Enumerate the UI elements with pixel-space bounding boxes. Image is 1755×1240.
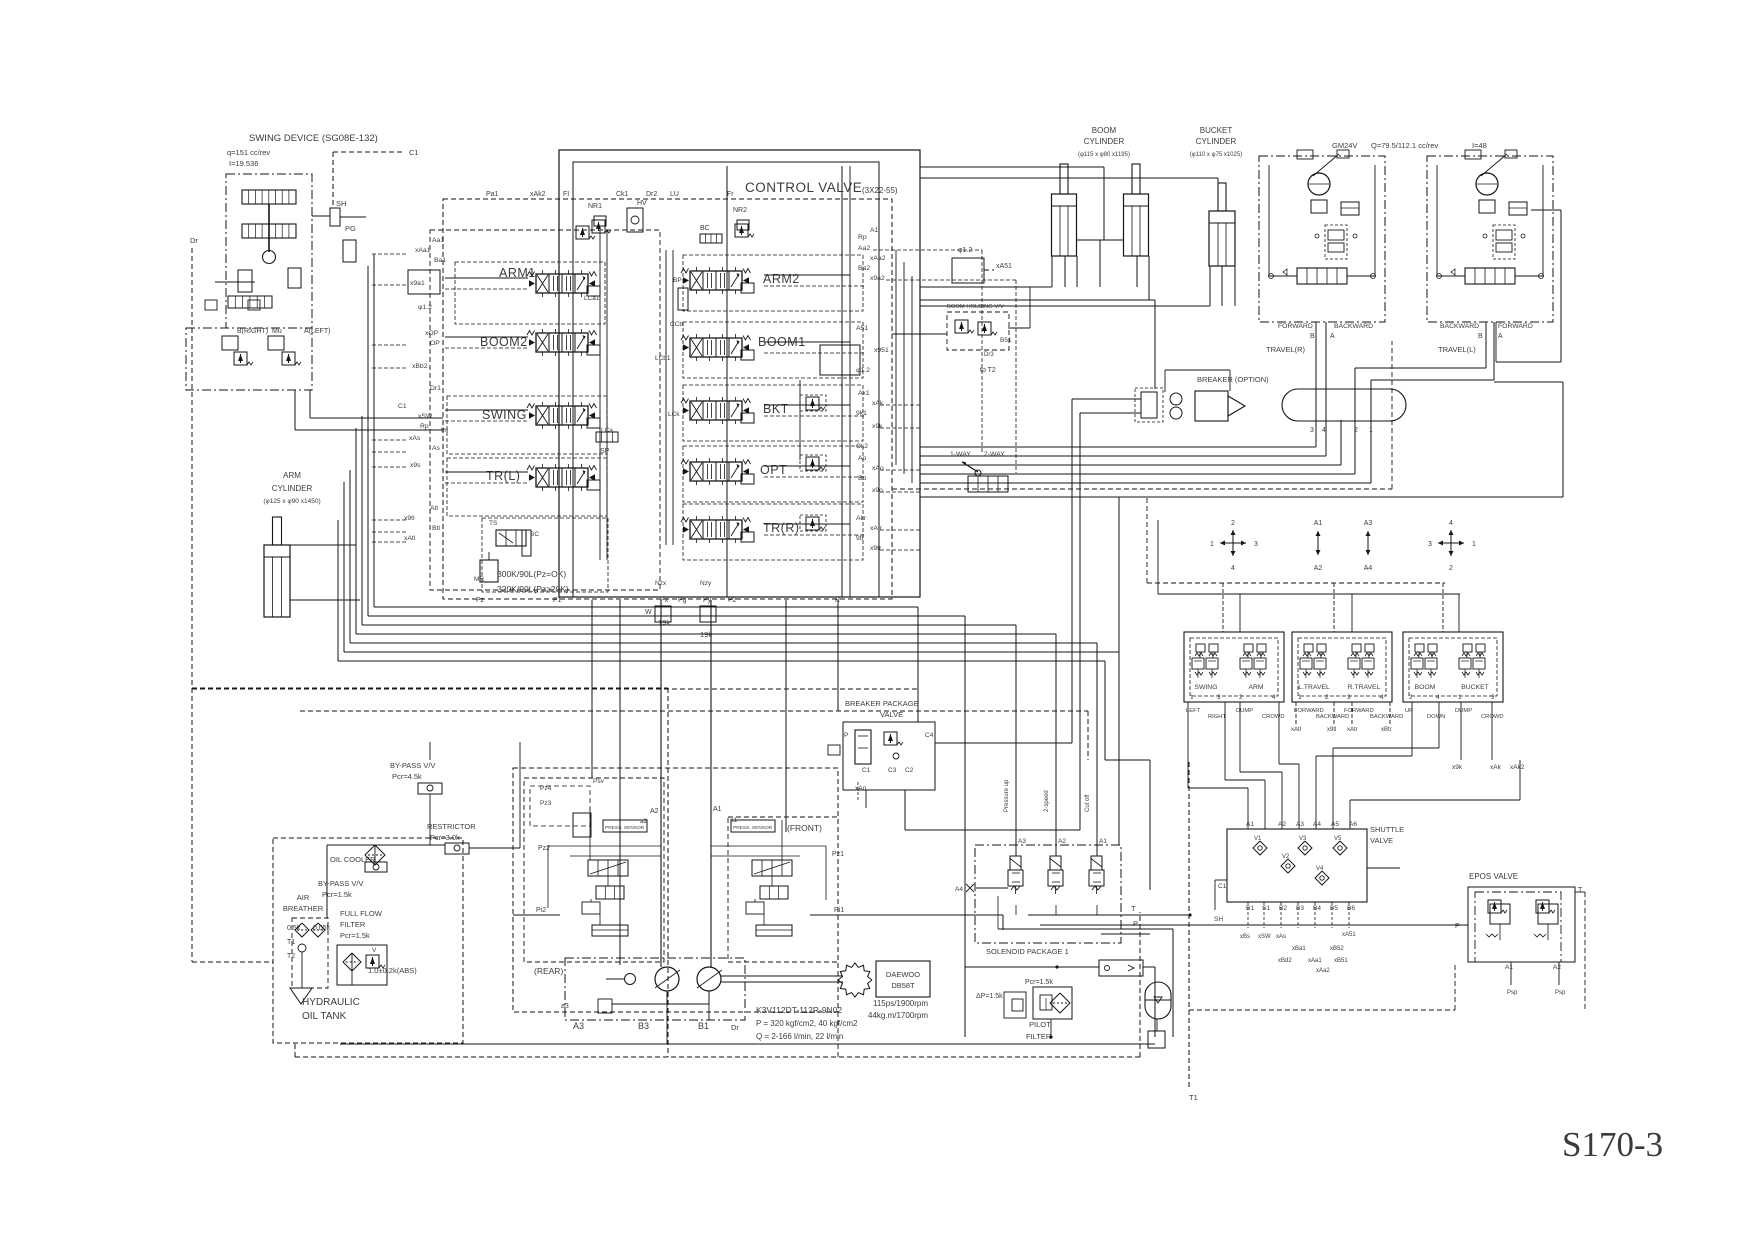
svg-text:x9tl: x9tl [404, 515, 415, 522]
svg-text:xAk2: xAk2 [1510, 764, 1525, 771]
svg-text:GM24V: GM24V [1332, 141, 1357, 150]
svg-text:xAtr: xAtr [870, 525, 883, 532]
svg-text:xAtl: xAtl [404, 535, 416, 542]
svg-text:C2: C2 [905, 767, 914, 774]
svg-text:1: 1 [1458, 694, 1462, 701]
svg-text:to T2: to T2 [980, 367, 996, 374]
svg-text:Pcr=1.5k: Pcr=1.5k [1025, 979, 1053, 986]
svg-text:A3: A3 [573, 1021, 584, 1031]
svg-text:TR(L): TR(L) [486, 469, 520, 483]
svg-text:A: A [1498, 333, 1503, 340]
svg-text:C1: C1 [398, 403, 407, 410]
svg-text:RESTRICTOR: RESTRICTOR [427, 822, 476, 831]
svg-text:3: 3 [1254, 541, 1258, 548]
svg-text:x9tr: x9tr [870, 545, 882, 552]
svg-text:BY-PASS V/V: BY-PASS V/V [318, 879, 363, 888]
svg-text:CYLINDER: CYLINDER [272, 484, 313, 493]
svg-text:T1: T1 [1189, 1093, 1198, 1102]
svg-text:xAk: xAk [1490, 764, 1502, 771]
svg-text:A2: A2 [1314, 565, 1323, 572]
svg-text:B4: B4 [1313, 905, 1321, 912]
svg-text:Pressure up: Pressure up [1004, 779, 1010, 812]
svg-text:Psv: Psv [593, 778, 605, 785]
svg-text:3: 3 [1310, 427, 1314, 434]
svg-text:LU: LU [670, 191, 679, 198]
svg-text:xBa1: xBa1 [1292, 946, 1306, 952]
svg-text:a3: a3 [561, 1003, 569, 1010]
svg-text:A3: A3 [1018, 838, 1026, 845]
svg-text:4: 4 [1436, 694, 1440, 701]
svg-text:PRESS. SENSOR: PRESS. SENSOR [733, 825, 773, 831]
svg-text:CYLINDER: CYLINDER [1084, 137, 1125, 146]
svg-text:1: 1 [1190, 694, 1194, 701]
svg-text:44kg.m/1700rpm: 44kg.m/1700rpm [868, 1011, 928, 1020]
svg-text:Atl: Atl [430, 505, 438, 512]
svg-text:V2: V2 [1282, 854, 1290, 860]
svg-text:S1: S1 [1262, 905, 1270, 912]
svg-text:TRAVEL(R): TRAVEL(R) [1266, 345, 1306, 354]
svg-text:DOWN: DOWN [1427, 714, 1445, 720]
svg-text:(φ125 x φ90 x1450): (φ125 x φ90 x1450) [263, 498, 320, 505]
svg-text:W: W [645, 609, 652, 616]
svg-text:Ao: Ao [858, 455, 867, 462]
svg-text:Ba2: Ba2 [858, 265, 870, 272]
svg-text:CROWD: CROWD [1262, 714, 1285, 720]
svg-text:300K/90L(Pz=OK): 300K/90L(Pz=OK) [497, 569, 566, 579]
svg-text:x9s: x9s [410, 462, 421, 469]
svg-text:BUCKET: BUCKET [1461, 684, 1489, 691]
svg-text:SH: SH [1214, 916, 1223, 923]
svg-text:2-WAY: 2-WAY [984, 451, 1005, 458]
svg-text:Nzx: Nzx [655, 580, 667, 587]
svg-text:VALVE: VALVE [880, 710, 903, 719]
svg-text:A1: A1 [713, 806, 722, 813]
svg-text:2: 2 [1231, 520, 1235, 527]
svg-text:C3: C3 [888, 767, 897, 774]
svg-text:xA51: xA51 [1342, 932, 1356, 938]
svg-text:LCa: LCa [601, 427, 613, 434]
svg-text:xOP: xOP [425, 330, 439, 337]
svg-text:Pz1: Pz1 [832, 851, 844, 858]
svg-text:A(LEFT): A(LEFT) [304, 328, 330, 335]
svg-text:115ps/1900rpm: 115ps/1900rpm [873, 999, 928, 1008]
svg-text:xBtr: xBtr [1381, 727, 1392, 733]
svg-text:xBs: xBs [1240, 934, 1250, 940]
svg-text:VALVE: VALVE [1370, 836, 1393, 845]
svg-text:TS: TS [489, 520, 498, 527]
svg-text:A4: A4 [955, 886, 963, 893]
svg-text:FILTER: FILTER [340, 920, 366, 929]
svg-text:A4: A4 [1313, 821, 1321, 828]
svg-text:B51: B51 [1000, 337, 1012, 344]
svg-text:PG: PG [345, 224, 356, 233]
svg-text:Pcr=4.5k: Pcr=4.5k [392, 772, 422, 781]
svg-text:(φ110 x φ75 x1025): (φ110 x φ75 x1025) [1190, 152, 1242, 158]
svg-text:4: 4 [1380, 694, 1384, 701]
svg-text:φ1.2: φ1.2 [418, 304, 432, 311]
svg-text:ARM: ARM [1248, 684, 1263, 691]
svg-text:P1: P1 [553, 597, 562, 604]
svg-text:BP: BP [673, 277, 682, 284]
svg-text:x9k: x9k [1452, 764, 1463, 771]
svg-text:CYLINDER: CYLINDER [1196, 137, 1237, 146]
svg-text:A3: A3 [1364, 520, 1373, 527]
svg-text:V4: V4 [1316, 866, 1324, 872]
svg-text:(3X22-55): (3X22-55) [862, 186, 898, 195]
svg-text:φ1.2: φ1.2 [958, 247, 972, 254]
svg-text:NR2: NR2 [733, 207, 747, 214]
svg-text:ΔP=1.5k: ΔP=1.5k [976, 993, 1003, 1000]
svg-text:Btl: Btl [432, 525, 440, 532]
svg-text:x9k: x9k [872, 423, 883, 430]
svg-text:A2: A2 [1058, 838, 1066, 845]
svg-text:Pg: Pg [678, 597, 687, 604]
svg-text:A5: A5 [1331, 821, 1339, 828]
svg-text:Psp: Psp [1507, 990, 1518, 996]
svg-text:B2: B2 [1279, 905, 1287, 912]
svg-text:T: T [1131, 904, 1136, 913]
svg-text:SH: SH [336, 199, 346, 208]
svg-text:FULL FLOW: FULL FLOW [340, 909, 383, 918]
svg-text:Rp: Rp [420, 423, 429, 430]
svg-text:a2: a2 [640, 818, 648, 825]
svg-text:P2: P2 [728, 597, 737, 604]
svg-text:C1: C1 [409, 148, 419, 157]
svg-text:xSW: xSW [1258, 934, 1271, 940]
svg-text:V3: V3 [1299, 836, 1307, 842]
svg-text:4: 4 [1322, 427, 1326, 434]
svg-text:xAa1: xAa1 [415, 247, 431, 254]
svg-text:T: T [1578, 887, 1583, 894]
svg-text:S170-3: S170-3 [1562, 1125, 1663, 1164]
svg-text:Dr2: Dr2 [646, 191, 657, 198]
svg-text:P: P [1455, 923, 1460, 930]
svg-text:A51: A51 [856, 325, 868, 332]
svg-text:BOOM: BOOM [1092, 126, 1117, 135]
svg-text:1: 1 [1210, 541, 1214, 548]
svg-text:B1: B1 [1246, 905, 1254, 912]
svg-text:Rp: Rp [858, 234, 867, 241]
svg-text:xAa2: xAa2 [870, 255, 886, 262]
svg-text:BREATHER: BREATHER [283, 904, 324, 913]
svg-text:Ck1: Ck1 [616, 191, 629, 198]
svg-text:A1: A1 [1246, 821, 1254, 828]
svg-text:BACKWARD: BACKWARD [1334, 323, 1373, 330]
svg-text:SOLENOID PACKAGE 1: SOLENOID PACKAGE 1 [986, 947, 1069, 956]
svg-text:xAk2: xAk2 [530, 191, 546, 198]
svg-text:ARM2: ARM2 [763, 272, 800, 286]
svg-text:Dr: Dr [731, 1023, 739, 1032]
svg-text:1: 1 [1472, 541, 1476, 548]
svg-text:3: 3 [1217, 694, 1221, 701]
svg-text:2: 2 [1325, 694, 1329, 701]
svg-text:Psp: Psp [1555, 990, 1566, 996]
svg-text:DB58T: DB58T [891, 981, 915, 990]
svg-text:Dr1: Dr1 [430, 385, 441, 392]
svg-text:BKT: BKT [763, 402, 789, 416]
svg-text:(FRONT): (FRONT) [787, 823, 822, 833]
svg-text:SWING: SWING [1194, 684, 1217, 691]
svg-text:4: 4 [1272, 694, 1276, 701]
svg-text:FILTER: FILTER [1026, 1032, 1052, 1041]
svg-text:CONTROL VALVE: CONTROL VALVE [745, 180, 862, 195]
svg-text:Mu: Mu [272, 328, 282, 335]
svg-text:RIGHT: RIGHT [1208, 714, 1226, 720]
svg-text:Bo: Bo [858, 475, 867, 482]
svg-text:B: B [1478, 333, 1483, 340]
svg-text:Pi1: Pi1 [834, 907, 844, 914]
svg-text:Ba1: Ba1 [434, 257, 446, 264]
svg-text:2: 2 [1239, 694, 1243, 701]
svg-text:CCb: CCb [670, 321, 683, 328]
svg-text:T1: T1 [287, 939, 295, 946]
svg-text:Q=79.5/112.1 cc/rev: Q=79.5/112.1 cc/rev [1371, 141, 1438, 150]
svg-text:V1: V1 [1254, 836, 1262, 842]
svg-text:BOOM HOLDING V/V: BOOM HOLDING V/V [947, 304, 1004, 310]
svg-text:Pa1: Pa1 [486, 191, 499, 198]
svg-text:PILOT: PILOT [1029, 1020, 1051, 1029]
svg-text:Akr: Akr [856, 515, 867, 522]
svg-text:Q = 2-166 l/min, 22 l/min: Q = 2-166 l/min, 22 l/min [756, 1032, 843, 1041]
svg-text:xBd2: xBd2 [1278, 958, 1292, 964]
svg-text:Nzy: Nzy [700, 580, 712, 587]
svg-text:C1: C1 [862, 767, 871, 774]
svg-text:2: 2 [1449, 565, 1453, 572]
svg-text:FI: FI [563, 191, 569, 198]
svg-text:OIL TANK: OIL TANK [302, 1011, 347, 1022]
svg-text:xA51: xA51 [996, 263, 1012, 270]
svg-text:A1: A1 [1505, 964, 1513, 971]
svg-text:BREAKER PACKAGE: BREAKER PACKAGE [845, 699, 919, 708]
svg-text:DUMP: DUMP [1236, 708, 1253, 714]
svg-text:C1: C1 [1218, 883, 1227, 890]
svg-text:Fr: Fr [727, 191, 734, 198]
svg-text:DAEWOO: DAEWOO [886, 970, 920, 979]
svg-text:A3: A3 [1296, 821, 1304, 828]
svg-text:As: As [432, 445, 441, 452]
svg-text:C4: C4 [925, 732, 934, 739]
svg-text:4: 4 [1231, 565, 1235, 572]
svg-text:B3: B3 [638, 1021, 649, 1031]
svg-text:PRESS. SENSOR: PRESS. SENSOR [605, 825, 645, 831]
svg-text:NR1: NR1 [588, 203, 602, 210]
svg-text:B6: B6 [1347, 905, 1355, 912]
svg-text:xAa1: xAa1 [1308, 958, 1322, 964]
svg-text:BOOM: BOOM [1415, 684, 1436, 691]
svg-text:OP: OP [430, 340, 440, 347]
svg-text:SHUTTLE: SHUTTLE [1370, 825, 1404, 834]
svg-text:B5: B5 [1330, 905, 1338, 912]
svg-text:EPOS VALVE: EPOS VALVE [1469, 872, 1518, 881]
svg-text:L.TRAVEL: L.TRAVEL [1298, 684, 1330, 691]
svg-text:Ck2: Ck2 [856, 443, 868, 450]
svg-text:q=151 cc/rev: q=151 cc/rev [227, 148, 270, 157]
svg-text:V: V [372, 947, 377, 954]
svg-text:1-WAY: 1-WAY [950, 451, 971, 458]
svg-text:A1: A1 [1314, 520, 1323, 527]
svg-text:Aa1: Aa1 [432, 237, 444, 244]
svg-text:3: 3 [1428, 541, 1432, 548]
svg-text:3: 3 [1347, 694, 1351, 701]
svg-text:4: 4 [1449, 520, 1453, 527]
svg-text:A2: A2 [650, 808, 659, 815]
svg-text:BY-PASS V/V: BY-PASS V/V [390, 761, 435, 770]
svg-text:TRAVEL(L): TRAVEL(L) [1438, 345, 1476, 354]
svg-text:P: P [844, 732, 848, 739]
svg-text:(REAR): (REAR) [534, 966, 563, 976]
svg-text:xAo: xAo [872, 465, 884, 472]
svg-text:LCa1: LCa1 [584, 295, 600, 302]
svg-text:320K/90L(Pz≥20K): 320K/90L(Pz≥20K) [497, 584, 569, 594]
svg-text:Ak1: Ak1 [858, 390, 870, 397]
svg-text:19k: 19k [658, 618, 670, 627]
svg-text:xAo: xAo [855, 785, 867, 792]
svg-text:x951: x951 [874, 347, 889, 354]
svg-text:x9o: x9o [872, 487, 883, 494]
svg-text:xAa2: xAa2 [1316, 968, 1330, 974]
svg-text:BACKWARD: BACKWARD [1316, 714, 1349, 720]
svg-text:1.0±0.2k(ABS): 1.0±0.2k(ABS) [368, 966, 417, 975]
svg-text:a1: a1 [730, 817, 738, 824]
svg-text:I=48: I=48 [1472, 141, 1487, 150]
svg-text:A: A [1330, 333, 1335, 340]
svg-text:A1: A1 [1099, 838, 1107, 845]
svg-text:2: 2 [1409, 694, 1413, 701]
svg-text:BACKWARD: BACKWARD [1440, 323, 1479, 330]
svg-text:AIR: AIR [297, 893, 310, 902]
svg-text:HV: HV [637, 200, 647, 207]
svg-text:xB52: xB52 [1330, 946, 1344, 952]
svg-text:DUMP: DUMP [1455, 708, 1472, 714]
svg-text:xB51: xB51 [1334, 958, 1348, 964]
svg-text:OPT: OPT [760, 463, 787, 477]
svg-text:xAtr: xAtr [1347, 727, 1358, 733]
svg-text:HYDRAULIC: HYDRAULIC [302, 997, 360, 1008]
svg-text:Pz3: Pz3 [540, 800, 552, 807]
svg-text:A4: A4 [1364, 565, 1373, 572]
svg-text:P = 320 kgf/cm2, 40 kgf/cm2: P = 320 kgf/cm2, 40 kgf/cm2 [756, 1019, 858, 1028]
svg-text:Aa2: Aa2 [858, 245, 870, 252]
svg-text:Dr3: Dr3 [984, 352, 994, 358]
svg-text:x9tl: x9tl [1327, 727, 1336, 733]
svg-text:3: 3 [1491, 694, 1495, 701]
svg-text:T2: T2 [287, 953, 295, 960]
svg-text:FORWARD: FORWARD [1278, 323, 1313, 330]
svg-text:B: B [1310, 333, 1315, 340]
svg-text:2-speed: 2-speed [1044, 790, 1050, 812]
svg-text:x9a2: x9a2 [870, 275, 885, 282]
svg-text:P: P [1133, 919, 1138, 928]
svg-text:Cut off: Cut off [1085, 794, 1091, 812]
svg-text:A2: A2 [1553, 964, 1561, 971]
svg-text:ARM: ARM [283, 471, 301, 480]
svg-text:(φ115 x φ80 x1195): (φ115 x φ80 x1195) [1078, 152, 1130, 158]
svg-text:xAk: xAk [872, 400, 884, 407]
svg-text:x9a1: x9a1 [410, 280, 425, 287]
svg-text:BUCKET: BUCKET [1200, 126, 1233, 135]
svg-text:BC: BC [700, 225, 710, 232]
svg-text:BACKWARD: BACKWARD [1370, 714, 1403, 720]
svg-text:Pi2: Pi2 [536, 907, 546, 914]
svg-text:FORWARD: FORWARD [1498, 323, 1533, 330]
svg-text:Pz: Pz [476, 597, 485, 604]
svg-text:A1: A1 [870, 227, 879, 234]
svg-text:Pcr=1.5k: Pcr=1.5k [340, 931, 370, 940]
svg-text:R.TRAVEL: R.TRAVEL [1348, 684, 1381, 691]
svg-text:Dr: Dr [190, 236, 198, 245]
svg-text:Py: Py [703, 597, 712, 604]
svg-text:BREAKER (OPTION): BREAKER (OPTION) [1197, 375, 1269, 384]
svg-text:TR(R): TR(R) [763, 521, 800, 535]
svg-text:B1: B1 [698, 1021, 709, 1031]
svg-text:xAs: xAs [1276, 934, 1286, 940]
svg-text:V5: V5 [1334, 836, 1342, 842]
svg-text:LCb1: LCb1 [655, 355, 671, 362]
svg-text:LCk: LCk [668, 411, 680, 418]
svg-text:xBb2: xBb2 [412, 363, 428, 370]
svg-text:SWING DEVICE (SG08E-132): SWING DEVICE (SG08E-132) [249, 133, 378, 144]
svg-text:1: 1 [1298, 694, 1302, 701]
svg-text:B3: B3 [1296, 905, 1304, 912]
svg-text:xAs: xAs [409, 435, 421, 442]
svg-text:xAtl: xAtl [1291, 727, 1301, 733]
svg-text:xSW: xSW [418, 413, 433, 420]
svg-text:K3V112DT-112R-9N02: K3V112DT-112R-9N02 [756, 1005, 842, 1015]
svg-text:B(RIGHT): B(RIGHT) [237, 328, 268, 335]
svg-text:I=19.536: I=19.536 [229, 159, 258, 168]
